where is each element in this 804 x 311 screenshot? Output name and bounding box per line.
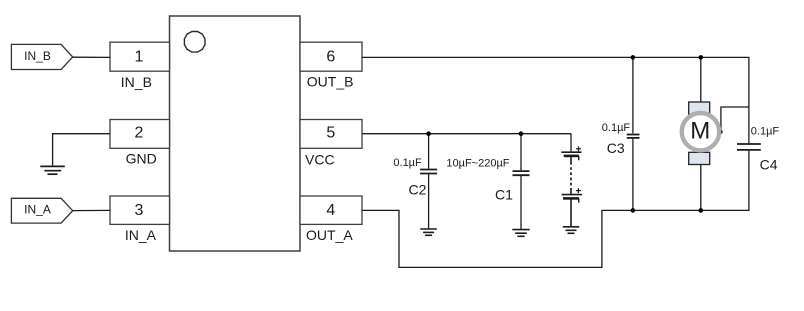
svg-text:6: 6 [326, 48, 335, 65]
svg-text:IN_A: IN_A [24, 202, 51, 216]
svg-text:M: M [690, 117, 710, 144]
svg-text:10µF~220µF: 10µF~220µF [446, 157, 509, 169]
svg-text:5: 5 [326, 125, 335, 142]
svg-text:0.1µF: 0.1µF [393, 157, 422, 169]
svg-text:0.1µF: 0.1µF [751, 126, 780, 138]
svg-text:GND: GND [126, 150, 157, 166]
svg-text:1: 1 [135, 48, 144, 65]
svg-text:IN_B: IN_B [121, 74, 152, 90]
svg-text:C2: C2 [409, 182, 427, 198]
svg-text:2: 2 [135, 125, 144, 142]
svg-text:C4: C4 [760, 157, 778, 173]
svg-text:3: 3 [135, 202, 144, 219]
svg-text:IN_A: IN_A [125, 227, 157, 243]
svg-text:0.1µF: 0.1µF [602, 122, 631, 134]
svg-text:OUT_B: OUT_B [307, 74, 354, 90]
svg-text:OUT_A: OUT_A [306, 227, 353, 243]
svg-text:4: 4 [326, 202, 335, 219]
svg-text:VCC: VCC [305, 151, 335, 167]
svg-text:IN_B: IN_B [24, 49, 51, 63]
svg-text:C3: C3 [607, 140, 625, 156]
svg-text:C1: C1 [495, 186, 513, 202]
